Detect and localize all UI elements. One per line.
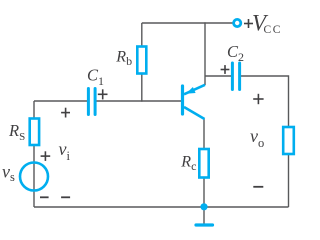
svg-text:CC: CC	[264, 24, 283, 36]
plus sign vo	[253, 94, 263, 104]
svg-text:vo: vo	[250, 126, 264, 150]
wire ground stem	[203, 207, 205, 225]
wire collector to Rc to bottom	[203, 119, 205, 208]
capacitor C2	[232, 63, 239, 90]
wire bottom rail	[34, 206, 289, 208]
svg-text:Rc: Rc	[180, 153, 196, 173]
label C1	[87, 65, 104, 87]
svg-text:C1: C1	[87, 65, 104, 87]
label +VCC	[244, 10, 282, 35]
wire base: C1 to transistor	[97, 100, 182, 102]
label Rc	[180, 153, 196, 173]
minus sign vo	[253, 186, 263, 188]
wire C2 left segment	[205, 75, 231, 77]
label RS	[8, 121, 25, 143]
svg-text:vs: vs	[2, 162, 15, 185]
resistor RL (load, unlabeled)	[283, 127, 294, 154]
plus sign vs	[41, 151, 51, 161]
minus sign vi	[61, 196, 70, 198]
svg-text:C2: C2	[227, 42, 244, 64]
label vo	[250, 126, 264, 150]
VCC terminal circle	[234, 19, 241, 26]
plus sign C1	[98, 89, 108, 99]
plus sign vi	[61, 108, 70, 118]
wire left vertical through Rs and source	[33, 101, 35, 207]
minus sign vs	[40, 196, 49, 198]
ground	[196, 223, 213, 226]
svg-text:vi: vi	[59, 139, 71, 163]
source vs circle	[20, 163, 48, 191]
wire input top: source to C1	[34, 100, 87, 102]
transistor Q1	[183, 85, 206, 119]
label vi	[59, 139, 71, 163]
resistor Rb	[137, 47, 146, 74]
svg-text:Rb: Rb	[115, 48, 132, 68]
label vs	[2, 162, 15, 185]
svg-text:RS: RS	[8, 121, 25, 143]
capacitor C1	[88, 89, 95, 115]
wire C2 right segment to right rail	[241, 76, 289, 207]
wire top rail to VCC terminal	[142, 22, 233, 24]
plus sign C2	[221, 65, 230, 74]
resistor RS	[30, 119, 39, 146]
label C2	[227, 42, 244, 64]
wire Rb branch vertical	[141, 23, 143, 102]
resistor Rc	[199, 149, 208, 178]
label Rb	[115, 48, 132, 68]
junction dot at Rc/ground	[200, 203, 207, 210]
wire collector-top vertical	[204, 22, 206, 85]
